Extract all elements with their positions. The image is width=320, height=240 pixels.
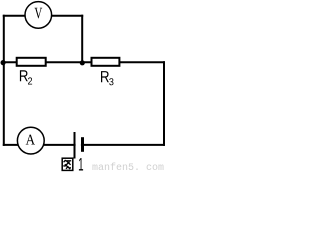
resistor R2 bbox=[17, 58, 46, 66]
wire left rail vertical bbox=[3, 15, 5, 146]
ammeter A bbox=[17, 127, 44, 154]
wire middle row horizontal bbox=[3, 61, 165, 63]
wire bottom horizontal bbox=[3, 144, 165, 146]
node junction right bbox=[80, 60, 85, 65]
node junction left bbox=[1, 60, 6, 65]
label R3 bbox=[101, 71, 113, 85]
wire voltmeter branch right vertical bbox=[81, 15, 83, 63]
watermark bbox=[92, 162, 164, 174]
svg-text:manfen5. com: manfen5. com bbox=[92, 162, 164, 173]
label R2 bbox=[20, 70, 32, 84]
wire top horizontal (voltmeter branch) bbox=[3, 15, 83, 17]
wire right rail vertical bbox=[163, 61, 165, 146]
resistor R3 bbox=[92, 58, 120, 66]
battery bbox=[75, 132, 83, 159]
caption 图1 bbox=[62, 158, 83, 170]
voltmeter V bbox=[25, 2, 52, 29]
